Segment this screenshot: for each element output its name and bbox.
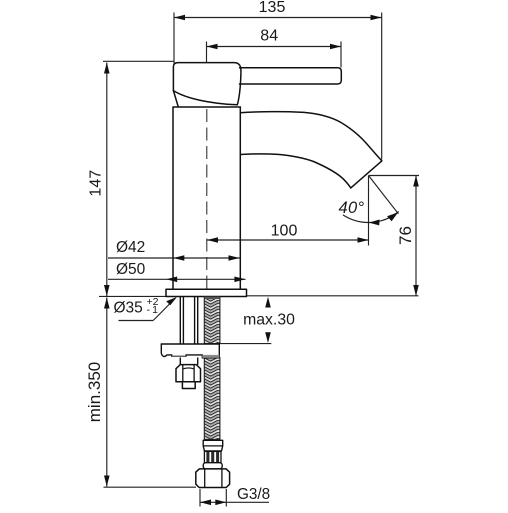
svg-text:76: 76 [396, 226, 415, 245]
body right edge [239, 107, 241, 289]
extension line left of 84 [206, 42, 208, 64]
spout outlet face [351, 161, 382, 188]
svg-text:Ø50: Ø50 [116, 261, 146, 278]
svg-text:40°: 40° [339, 199, 365, 217]
bottom dimension G38 [200, 489, 269, 507]
svg-text:Ø42: Ø42 [116, 239, 145, 256]
svg-text:100: 100 [271, 223, 298, 240]
svg-text:147: 147 [87, 170, 104, 197]
extension line spout tip to 76 [369, 175, 420, 177]
max30 bottom reference line [219, 343, 271, 345]
dimension 135 line [174, 15, 382, 21]
arrowhead on arc at angled line [387, 212, 398, 221]
svg-text:Ø35: Ø35 [114, 300, 143, 317]
mounting bracket [161, 344, 219, 358]
handle lever [240, 68, 342, 84]
extension line left of 135 [173, 13, 175, 64]
handle head [173, 63, 241, 105]
dimension 100 line [207, 237, 369, 243]
handle skirt left face [173, 91, 178, 107]
sleeve collar ring [203, 463, 222, 469]
threaded shank lines [180, 297, 197, 365]
handle skirt curve [173, 91, 237, 105]
svg-text:G3/8: G3/8 [237, 486, 270, 503]
dimension D50 line [108, 277, 246, 283]
extension line top of 147 [103, 60, 174, 62]
arrowhead on arc at vertical line [369, 220, 380, 226]
hexagon nut [176, 365, 201, 389]
extension line bottom of min350 [104, 486, 197, 488]
flexible hose braid lower [204, 358, 220, 440]
hose ferrule [203, 440, 223, 451]
svg-text:84: 84 [260, 28, 278, 45]
dimension 84 line [207, 44, 342, 50]
crimp sleeve with ribs [204, 451, 221, 462]
extension line right of 135 to spout tip [381, 13, 383, 160]
dimension min350 line [104, 298, 110, 487]
dimension 147 line [104, 63, 110, 297]
dimension 76 line [413, 176, 419, 297]
vertical reference line from spout tip [368, 176, 370, 246]
svg-text:max.30: max.30 [243, 312, 295, 329]
spout bottom curve [240, 154, 350, 188]
flexible hose braid upper [204, 297, 220, 344]
dimension D42 line [108, 255, 240, 261]
body left edge [172, 107, 174, 289]
svg-text:- 1: - 1 [147, 304, 159, 316]
angled 40 degree reference line [369, 176, 399, 214]
base flange [166, 289, 247, 296]
faucet outline group [166, 63, 382, 297]
svg-text:min.350: min.350 [85, 362, 104, 422]
deck surface line left [99, 295, 166, 297]
extension line right of 84 to lever end [340, 42, 342, 68]
svg-text:135: 135 [259, 0, 286, 16]
leader line of D35 [119, 297, 177, 321]
spout top curve [240, 112, 381, 161]
G38 connection nut [196, 469, 230, 488]
body centre line dashed [206, 109, 208, 289]
body top joint line [173, 106, 240, 108]
dimension max30 arrows [265, 297, 271, 343]
shank stubs above nut [179, 358, 181, 365]
arc of 40 degree dimension [343, 212, 399, 223]
deck surface line right [247, 295, 419, 297]
nut collar [182, 382, 195, 389]
